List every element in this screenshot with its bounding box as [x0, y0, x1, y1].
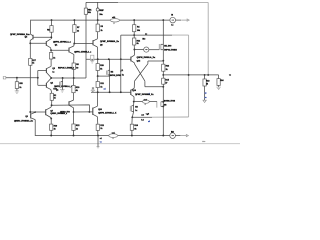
node junction Q1 emitter / Q2 base / R6: [50, 49, 52, 51]
node junction bus G / R19: [50, 135, 52, 137]
port arrow VEE right: [181, 135, 187, 137]
wire Q7 emitter down: [50, 118, 52, 119]
wire Q9 collector up to R20: [73, 93, 75, 100]
svg-text:5k: 5k: [100, 69, 102, 71]
svg-text:IB: IB: [171, 15, 173, 17]
resistor R14: [218, 75, 220, 79]
svg-text:6k: 6k: [137, 43, 139, 45]
resistor RIN: [15, 82, 18, 89]
wire R16 to bus G: [131, 130, 133, 135]
node junction common emitters: [50, 77, 52, 79]
node junction M6 source: [162, 105, 164, 107]
wire VCC right vertical: [207, 2, 209, 75]
resistor R21: [96, 124, 99, 130]
svg-text:1x: 1x: [135, 110, 137, 112]
node junction bus C / R4: [133, 34, 135, 36]
svg-text:1k: 1k: [32, 63, 34, 65]
resistor R9 on x86 branch: [84, 8, 87, 14]
node junction bus H / x120: [120, 91, 122, 93]
wire node to Q6 base: [74, 43, 93, 45]
wire bus H (second stage base rail): [91, 91, 131, 93]
svg-text:R14: R14: [220, 79, 223, 82]
current source IB1 inline on bus B: [170, 17, 176, 23]
svg-text:27: 27: [165, 83, 167, 85]
transistor Q8 diode-connected bottom-left: [30, 113, 32, 118]
svg-text:QPNP_5V0BMA_Xx: QPNP_5V0BMA_Xx: [100, 40, 120, 43]
svg-text:4k: 4k: [76, 89, 78, 92]
wire Q10 emitter down: [96, 117, 98, 125]
svg-text:B0P08_5V0BM: B0P08_5V0BM: [164, 49, 177, 51]
transistor Q7 npn: [45, 109, 47, 115]
wire Q15 emitter stub: [133, 62, 135, 65]
node junction Q5 collector / Q1 base wire: [29, 42, 31, 44]
svg-text:1k: 1k: [19, 87, 21, 89]
wire x163 M6 to bus G: [162, 106, 164, 135]
wire x163 to M6: [162, 87, 164, 102]
svg-text:Q3: Q3: [52, 68, 55, 70]
node junction bus B / R1: [51, 19, 53, 21]
resistor R12 below bus C: [133, 35, 135, 38]
node junction x163 / wire61: [162, 60, 164, 62]
transistor Q15 npn: [130, 57, 132, 62]
svg-text:i1: i1: [122, 70, 124, 72]
mosfet M2 on bus D branch: [109, 59, 111, 70]
wire Q6 emitter to bus D: [96, 47, 98, 59]
svg-text:39k: 39k: [137, 30, 140, 32]
node junction bus G / R21: [97, 135, 99, 137]
resistor R4: [133, 25, 136, 32]
node junction input / RIN: [16, 77, 18, 79]
resistor R18 above node: [50, 90, 53, 94]
wire R13 down to pin: [204, 86, 206, 100]
wire R3 chain: [97, 20, 99, 24]
resistor R13: [204, 75, 206, 79]
wire R4 chain from bus B: [133, 20, 135, 25]
transistor Q9 npn (T6): [68, 101, 70, 105]
wire input net: [6, 77, 38, 79]
ammeter oval probe on bus G: [109, 134, 118, 138]
node junction bus B / M5 drain: [162, 19, 164, 21]
node junction bus B / R3: [97, 19, 99, 21]
transistor Q4 npn lower input: [46, 78, 51, 83]
node junction Q7 emitter / R19: [50, 118, 52, 120]
svg-text:vg6: vg6: [146, 113, 149, 115]
current source IB3 inline on bus G: [170, 133, 176, 139]
wire bus C dark part: [121, 34, 172, 36]
svg-text:nc: nc: [145, 33, 147, 35]
wire x120 branch bus C to bus H: [120, 35, 122, 92]
svg-text:Q5: Q5: [25, 37, 28, 39]
svg-text:0: 0: [145, 104, 146, 106]
wire bus E: [163, 74, 218, 76]
port arrow VCC right: [181, 19, 187, 21]
wire Q10 collector up to bus H: [96, 92, 98, 106]
svg-text:B0P08_5V0B: B0P08_5V0B: [110, 75, 122, 77]
node junction bus G / x163: [162, 135, 164, 137]
mosfet M5 gate bar: [158, 44, 160, 50]
transistor Q6 npn: [92, 40, 94, 45]
wire Q9 emitter resistor chain: [73, 112, 75, 124]
wire Q3 base stub: [38, 70, 47, 72]
node junction M6 drain: [162, 101, 164, 103]
wire output node to R16: [131, 117, 133, 124]
wire Q4 base stub: [38, 84, 47, 86]
wire cross right bottom down: [144, 81, 146, 87]
svg-text:1k: 1k: [101, 30, 103, 32]
node junction R12 / IB2 / Q15 collector: [133, 49, 135, 51]
svg-text:Q4: Q4: [50, 82, 53, 85]
resistor R2: [73, 25, 76, 33]
svg-text:R20: R20: [76, 87, 79, 89]
svg-text:1x: 1x: [52, 72, 54, 74]
node junction Q7 collector / R18 / Q9 base wire: [51, 104, 53, 106]
svg-text:R16: R16: [134, 125, 137, 127]
svg-text:QNMO_5V0BMA_Xx: QNMO_5V0BMA_Xx: [14, 119, 34, 122]
wire Q7 collector to node: [50, 105, 53, 107]
svg-text:25: 25: [206, 84, 208, 86]
wire Q16 emitter down: [133, 97, 135, 102]
source V0 on bus D with ground: [91, 55, 94, 59]
svg-text:R7: R7: [77, 27, 79, 29]
svg-text:QPNP_5V0BMA_Xxx: QPNP_5V0BMA_Xxx: [10, 33, 30, 36]
svg-text:26u: 26u: [99, 14, 103, 16]
wire R20 top to emitter node: [73, 78, 75, 85]
svg-text:n6: n6: [148, 121, 150, 123]
mosfet M5 channel and stubs: [160, 44, 162, 50]
resistor R1: [50, 26, 53, 33]
svg-text:R4: R4: [137, 26, 140, 29]
svg-text:Q10: Q10: [98, 109, 102, 111]
node junction Q8 collector diode tie: [34, 111, 36, 113]
svg-text:ve: ve: [100, 141, 102, 143]
svg-text:B0N08_5V0B: B0N08_5V0B: [164, 101, 176, 103]
wire output net top gray part of bus C: [172, 34, 189, 36]
svg-text:vp: vp: [205, 93, 207, 95]
wire Q1 base: [30, 42, 46, 44]
svg-text:2k: 2k: [77, 30, 79, 32]
svg-text:1k: 1k: [100, 86, 102, 88]
svg-text:QNPN_15V0BLA_x: QNPN_15V0BLA_x: [53, 40, 72, 43]
wire R21 to bus G: [97, 130, 99, 135]
svg-text:1k: 1k: [100, 128, 102, 130]
port IN input pin: [3, 76, 6, 79]
wire VEE bottom light rail: [0, 143, 240, 145]
svg-text:RIN: RIN: [19, 83, 23, 85]
wire left rail lower: [29, 65, 31, 113]
wire node to oval: [134, 101, 143, 103]
svg-text:vb1: vb1: [112, 17, 115, 19]
wire Q5 base to R1 node: [33, 36, 51, 38]
svg-text:R15: R15: [165, 80, 168, 82]
svg-text:R13: R13: [206, 80, 209, 82]
wire bus B stub to port: [176, 19, 181, 21]
wire R14 to ground: [218, 85, 220, 87]
svg-text:IREF: IREF: [99, 10, 104, 12]
resistor R11 to bus H: [96, 82, 99, 88]
wire R10 to node: [97, 71, 99, 77]
wire VCC top rail gray segment: [118, 1, 208, 3]
ammeter oval probe on bus B: [110, 19, 119, 22]
svg-text:0: 0: [113, 138, 114, 140]
resistor R16: [130, 124, 133, 130]
wire cross left bottom down: [133, 81, 135, 88]
wire M3 to output node: [132, 112, 133, 118]
wire R12 to node: [133, 45, 135, 50]
svg-text:Q1: Q1: [55, 44, 58, 46]
wire RIN top: [16, 78, 18, 82]
node junction bus H / M2: [109, 91, 111, 93]
wire left rail resistor R17: [29, 58, 32, 65]
svg-text:IB3: IB3: [171, 132, 174, 134]
transistor Q2 npn: [68, 48, 70, 53]
wire Q8 emitter to bus G corner: [35, 120, 170, 136]
svg-text:Q8: Q8: [25, 116, 27, 118]
svg-text:1k: 1k: [54, 98, 56, 100]
svg-text:n4: n4: [104, 88, 106, 91]
wire oval to M6 gate: [149, 101, 157, 103]
wire Q2 collector up: [73, 44, 75, 46]
svg-text:R5: R5: [47, 30, 49, 32]
svg-text:e1: e1: [100, 138, 102, 140]
svg-text:R3: R3: [101, 26, 103, 28]
svg-text:50: 50: [76, 68, 78, 70]
mosfet M3 below Q16: [133, 102, 135, 106]
node junction x163 / wire86.8: [162, 86, 164, 88]
node junction bus E / output vertical: [188, 74, 190, 76]
svg-text:3k: 3k: [166, 69, 168, 71]
svg-text:out: out: [141, 114, 144, 117]
svg-text:R8: R8: [76, 64, 78, 66]
transistor Q16 pnp: [131, 88, 134, 90]
wire R2 chain: [73, 20, 75, 25]
node junction bus B / R2: [73, 19, 75, 21]
svg-text:QNPN_15V0BLA_x: QNPN_15V0BLA_x: [74, 51, 92, 54]
current source I1 vertical with arrow: [97, 6, 99, 8]
wire R22 to bus G: [73, 130, 75, 135]
wire Q5 collector node down left rail: [29, 43, 31, 58]
svg-text:Q6: Q6: [100, 45, 103, 47]
wire Q9 emitter to node: [73, 108, 75, 112]
wire Q9 base wire: [52, 105, 90, 112]
wire 86.8 to x163: [145, 86, 163, 88]
wire R8 to emitter node: [73, 69, 75, 78]
wire IB2 to M5 gate: [149, 49, 159, 51]
svg-text:ve1: ve1: [112, 133, 115, 135]
wire RIN to ground: [16, 89, 18, 91]
wire R3 to Q6 collector: [96, 32, 98, 39]
wire Q2 emitter down: [73, 54, 75, 63]
svg-text:R2: R2: [54, 95, 56, 97]
resistor R23 on x163 between node61 and bus E: [162, 61, 164, 64]
svg-text:QNPN_5V0BLA_Xx: QNPN_5V0BLA_Xx: [137, 56, 156, 59]
svg-text:R21: R21: [100, 125, 103, 127]
resistor R10 below bus D: [97, 59, 99, 63]
resistor R22: [72, 124, 75, 130]
wire Q15 collector up: [133, 50, 135, 56]
wire Q7 base: [30, 111, 45, 113]
wire R19 chain: [50, 119, 52, 125]
wire R23 to bus E: [162, 71, 164, 75]
transistor Q3 npn upper input: [46, 66, 51, 68]
current probe arrow on x120: [120, 71, 122, 73]
svg-text:R22: R22: [76, 125, 79, 127]
node junction Q9 emitter / wire: [73, 111, 75, 113]
svg-text:Q16: Q16: [132, 90, 136, 92]
wire bus B left corner down: [30, 20, 32, 34]
transistor Q1 npn: [45, 41, 47, 46]
svg-text:vb2: vb2: [144, 99, 147, 101]
wire input base vertical: [37, 71, 39, 86]
svg-text:R19: R19: [54, 125, 57, 127]
node junction Q16 / oval / M3: [133, 101, 135, 103]
node junction R10 / R11 / M2 gate wire: [97, 75, 99, 77]
svg-text:5u: 5u: [122, 74, 124, 76]
svg-text:1k: 1k: [53, 57, 55, 59]
svg-text:1u: 1u: [171, 25, 173, 27]
wire R4 to bus C: [133, 32, 135, 35]
pin triangle OUT2: [203, 100, 206, 102]
node junction bus E / R13: [204, 74, 206, 76]
svg-text:1k: 1k: [54, 128, 56, 130]
wire R2 bottom: [73, 32, 75, 43]
resistor R15 on x163 below bus E: [162, 75, 164, 78]
wire R6 to Q3 collector: [50, 59, 52, 66]
svg-text:vc: vc: [229, 75, 231, 77]
wire main top bus VCC1 (bus B): [31, 19, 170, 21]
wire emitter node to x86 branch: [51, 77, 86, 79]
wire R18 to node: [51, 100, 53, 105]
wire vertical branch x86 from top rail to input-pair node: [85, 2, 87, 78]
node junction T10 base node: [88, 111, 90, 113]
node junction R2 / Q2 collector / Q6 base wire: [73, 43, 75, 45]
svg-text:M5_5V0: M5_5V0: [164, 46, 171, 48]
svg-text:R18: R18: [53, 89, 56, 91]
resistor R8 on Q2 emitter: [72, 63, 75, 69]
wire bus D: [86, 58, 131, 60]
wire crossed diagonal left-to-right: [134, 64, 145, 81]
node junction bus H / R11: [97, 91, 99, 93]
node junction Q5 base / R1 / Q1 collector: [50, 36, 52, 38]
mosfet M6 on x163: [161, 101, 163, 103]
node junction emitter node / M1: [62, 77, 64, 79]
svg-text:R10: R10: [100, 65, 103, 67]
svg-text:R12: R12: [137, 40, 140, 42]
mosfet M1 to ground: [62, 78, 64, 81]
svg-text:1k: 1k: [76, 128, 78, 130]
ammeter oval probe mid: [143, 100, 150, 103]
wire to Q10 base: [89, 111, 92, 113]
node junction input wire: [37, 77, 39, 79]
resistor R6 below Q1 emitter: [50, 50, 52, 52]
wire R15 to node87: [162, 84, 164, 87]
svg-text:6.2: 6.2: [141, 120, 144, 122]
wire Q2 base: [51, 49, 69, 51]
wire cross right top to wire61: [147, 61, 149, 64]
svg-text:QNPN_15V0BLA_x: QNPN_15V0BLA_x: [54, 85, 73, 88]
transistor Q5 pnp mirrored (top-left): [32, 35, 34, 40]
transistor Q10 npn: [92, 108, 94, 115]
svg-text:vee: vee: [202, 141, 205, 143]
wire R19 to bus G: [50, 130, 52, 135]
node junction bus G / R16: [131, 135, 133, 137]
wire bus G stub to port: [176, 135, 181, 137]
wire M5 drain up to bus B: [162, 20, 164, 61]
svg-text:39k: 39k: [88, 12, 92, 14]
wire R1 chain from bus B: [51, 20, 53, 26]
svg-text:M2: M2: [111, 71, 114, 73]
svg-text:8k: 8k: [134, 128, 136, 130]
wire node to M2: [98, 75, 110, 77]
node junction x163 / bus E: [162, 74, 164, 76]
wire emitter node right: [74, 111, 90, 113]
resistor R19: [50, 124, 53, 130]
resistor R20: [72, 85, 75, 92]
svg-text:R23: R23: [166, 66, 169, 68]
node junction bus D / x120 branch: [120, 58, 122, 60]
wire VCC top rail dark segment: [86, 1, 118, 3]
wire output net vertical right: [188, 35, 190, 117]
node junction bus D / Q6: [97, 58, 99, 60]
ground below R14: [216, 86, 220, 88]
wire 61 to x163: [148, 60, 163, 62]
wire node to IB2: [134, 49, 143, 51]
wire crossed diagonal right-to-left: [135, 64, 148, 81]
ground below M1: [60, 89, 64, 91]
node junction left rail / Q7 base wire: [29, 111, 31, 113]
svg-text:RB1: RB1: [88, 9, 92, 11]
ground below RIN: [15, 90, 19, 92]
wire bias source branch x97.7 top: [97, 2, 99, 20]
svg-text:R11: R11: [100, 83, 103, 85]
svg-text:R17: R17: [32, 60, 35, 62]
svg-text:Q15: Q15: [137, 61, 141, 63]
node junction emitter node / R8: [73, 77, 75, 79]
svg-text:Q7: Q7: [50, 111, 53, 113]
node junction bus G / R22: [73, 135, 75, 137]
wire output dark segment: [132, 116, 152, 118]
svg-text:QPNP_5V0BMA_Xx: QPNP_5V0BMA_Xx: [135, 93, 154, 96]
svg-text:0: 0: [114, 23, 115, 25]
wire R1 bottom to Q1 collector: [51, 32, 53, 39]
node junction output node: [131, 116, 133, 118]
svg-text:vn: vn: [205, 97, 207, 99]
svg-text:M6: M6: [164, 105, 167, 107]
node junction bus D / M2 drain: [108, 58, 110, 60]
node junction bus E / VCC vertical: [207, 74, 209, 76]
svg-text:QNPN_15V0BLA_X: QNPN_15V0BLA_X: [98, 112, 117, 115]
ground up symbol on bus H: [92, 91, 94, 92]
svg-text:QNMO_5V0: QNMO_5V0: [60, 111, 70, 113]
resistor R3: [96, 24, 99, 32]
current source IB2: [144, 47, 149, 52]
wire output net horizontal lower: [152, 116, 189, 118]
node junction bus B / R4: [133, 19, 135, 21]
svg-text:M3: M3: [135, 107, 138, 109]
svg-text:IB2: IB2: [142, 38, 145, 40]
wire VEE tap below bus G: [97, 136, 99, 147]
